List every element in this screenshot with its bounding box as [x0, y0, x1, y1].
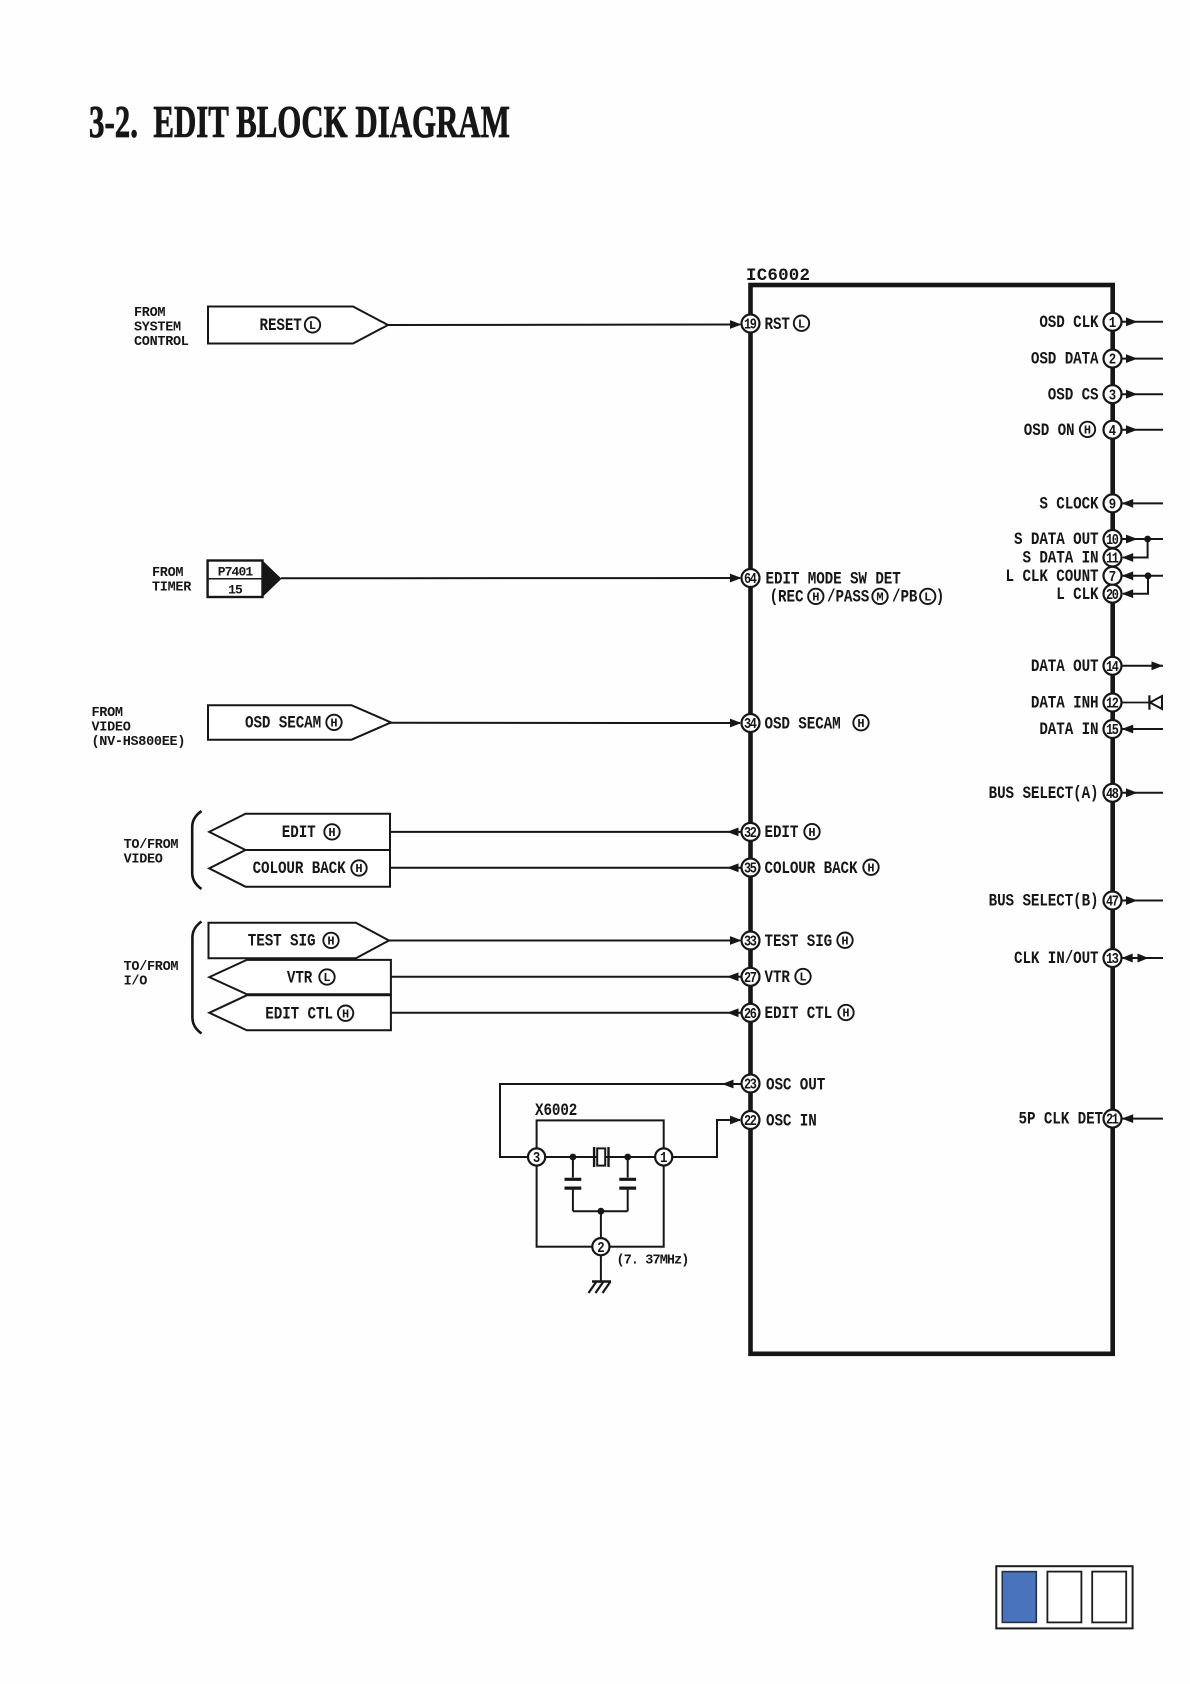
- node label FROM SYSTEM CONTROL: [134, 306, 189, 350]
- svg-text:BUS SELECT(B): BUS SELECT(B): [989, 890, 1099, 911]
- svg-text:3: 3: [533, 1151, 540, 1167]
- signal flag RESET (L): [208, 307, 388, 344]
- svg-text:VTR: VTR: [287, 967, 313, 988]
- svg-text:23: 23: [744, 1077, 757, 1093]
- svg-text:/PB: /PB: [892, 586, 918, 607]
- svg-text:DATA IN: DATA IN: [1039, 719, 1098, 740]
- svg-text:1: 1: [660, 1151, 667, 1167]
- svg-text:L: L: [309, 319, 316, 333]
- svg-text:/PASS: /PASS: [827, 586, 870, 607]
- svg-text:OSD CLK: OSD CLK: [1039, 311, 1098, 332]
- svg-text:(7. 37MHz): (7. 37MHz): [617, 1254, 689, 1269]
- svg-text:OSD CS: OSD CS: [1048, 384, 1099, 405]
- svg-text:20: 20: [1106, 587, 1119, 603]
- svg-text:FROM: FROM: [134, 306, 165, 321]
- pin 21 5P CLK DET: [1019, 1108, 1122, 1129]
- signal flag EDIT CTL (H): [209, 995, 391, 1030]
- svg-text:21: 21: [1106, 1112, 1119, 1128]
- pin 1 OSD CLK: [1039, 311, 1121, 332]
- svg-text:L: L: [924, 591, 931, 605]
- pin 13 CLK IN/OUT: [1014, 948, 1121, 969]
- page nav marker boxes: [996, 1566, 1132, 1628]
- wire OSC IN from crystal pin 1: [673, 1116, 742, 1157]
- node label TO/FROM I/O: [124, 960, 179, 990]
- wire pin 26 to EDIT CTL flag: [391, 1008, 742, 1017]
- svg-text:EDIT CTL: EDIT CTL: [265, 1003, 333, 1024]
- svg-text:OSD ON: OSD ON: [1024, 419, 1075, 440]
- wire pin 2 to ground: [600, 1255, 602, 1281]
- svg-text:TEST SIG: TEST SIG: [248, 930, 316, 951]
- svg-text:DATA OUT: DATA OUT: [1031, 655, 1099, 676]
- svg-text:3: 3: [1109, 388, 1116, 404]
- svg-text:4: 4: [1109, 424, 1116, 440]
- junction dot right: [624, 1154, 631, 1161]
- svg-text:L: L: [323, 971, 330, 985]
- junction dot common: [598, 1208, 605, 1215]
- svg-text:26: 26: [744, 1006, 757, 1022]
- crystal X6002 designator: [535, 1099, 577, 1120]
- wire CLK IN/OUT bidirectional: [1122, 954, 1164, 963]
- svg-text:BUS SELECT(A): BUS SELECT(A): [989, 782, 1099, 803]
- svg-text:H: H: [355, 862, 362, 876]
- svg-text:5P CLK DET: 5P CLK DET: [1019, 1108, 1104, 1129]
- wire S DATA OUT with branch to S DATA IN: [1122, 535, 1164, 562]
- pin 2 OSD DATA: [1031, 348, 1122, 369]
- brace io group: [192, 922, 201, 1034]
- svg-text:I/O: I/O: [124, 974, 148, 989]
- svg-text:): ): [936, 586, 944, 607]
- wire common to crystal pin 2: [600, 1211, 602, 1238]
- pin 32 EDIT (H): [742, 822, 820, 843]
- svg-text:48: 48: [1106, 786, 1119, 802]
- pin 14 DATA OUT: [1031, 655, 1122, 676]
- svg-text:H: H: [842, 1007, 849, 1021]
- svg-text:EDIT: EDIT: [282, 822, 316, 843]
- svg-text:IC6002: IC6002: [746, 266, 810, 286]
- svg-text:27: 27: [744, 970, 757, 986]
- svg-text:64: 64: [744, 571, 757, 587]
- svg-text:VIDEO: VIDEO: [92, 720, 131, 735]
- svg-text:FROM: FROM: [152, 566, 183, 581]
- crystal element X6002: [594, 1147, 608, 1167]
- wire TEST SIG to pin 33: [387, 936, 742, 945]
- svg-text:H: H: [808, 826, 815, 840]
- wire OSD CS: [1122, 390, 1164, 399]
- pin 33 TEST SIG (H): [742, 930, 853, 951]
- svg-text:12: 12: [1106, 696, 1119, 712]
- svg-text:H: H: [867, 861, 874, 875]
- capacitor C-left: [565, 1157, 582, 1211]
- wire pin 32 to EDIT flag: [390, 828, 742, 837]
- svg-text:L: L: [799, 971, 806, 985]
- svg-text:2: 2: [1109, 353, 1116, 369]
- svg-text:P7401: P7401: [218, 564, 254, 579]
- wire BUS SELECT (A): [1122, 788, 1164, 797]
- svg-text:SYSTEM: SYSTEM: [134, 321, 181, 336]
- wire OSD DATA: [1122, 354, 1164, 363]
- svg-text:32: 32: [744, 825, 757, 841]
- svg-text:15: 15: [228, 582, 243, 597]
- node label FROM TIMER: [152, 566, 192, 596]
- svg-text:OSD SECAM: OSD SECAM: [765, 713, 841, 734]
- wire OSD SECAM to pin 34: [389, 719, 742, 728]
- brace video group: [192, 811, 201, 889]
- svg-text:3-2. EDIT BLOCK DIAGRAM: 3-2. EDIT BLOCK DIAGRAM: [89, 97, 510, 147]
- svg-text:VTR: VTR: [765, 967, 791, 988]
- svg-text:CLK IN/OUT: CLK IN/OUT: [1014, 948, 1099, 969]
- svg-text:H: H: [841, 934, 848, 948]
- signal flag OSD SECAM (H): [208, 705, 391, 740]
- IC6002 reference designator: [746, 266, 810, 286]
- svg-text:VIDEO: VIDEO: [124, 852, 163, 867]
- svg-text:COLOUR BACK: COLOUR BACK: [253, 858, 346, 879]
- wire DATA OUT: [1122, 661, 1164, 670]
- connector P7401 pin 15: [208, 561, 282, 598]
- pin 48 BUS SELECT (A): [989, 782, 1122, 803]
- svg-text:13: 13: [1106, 951, 1119, 967]
- pin 11 S DATA IN: [1022, 547, 1121, 568]
- signal flag VTR (L): [209, 960, 391, 994]
- wire OSD CLK: [1122, 317, 1164, 326]
- page title: [89, 97, 510, 147]
- wire crystal internal node: [545, 1156, 655, 1158]
- svg-text:RST: RST: [765, 313, 791, 334]
- svg-text:14: 14: [1106, 659, 1119, 675]
- svg-text:DATA INH: DATA INH: [1031, 692, 1099, 713]
- wire pin 35 to COLOUR BACK flag: [390, 863, 742, 872]
- wire capacitors common: [573, 1210, 628, 1212]
- svg-text:19: 19: [744, 317, 757, 333]
- wire pin 27 to VTR flag: [391, 972, 742, 981]
- wire P7401 to pin 64: [281, 574, 742, 583]
- pin 15 DATA IN: [1039, 719, 1121, 740]
- svg-text:15: 15: [1106, 722, 1119, 738]
- svg-text:33: 33: [744, 934, 757, 950]
- wire DATA INH with diode: [1122, 695, 1164, 709]
- svg-text:34: 34: [744, 716, 757, 732]
- capacitor C-right: [619, 1157, 636, 1211]
- svg-text:OSD DATA: OSD DATA: [1031, 348, 1099, 369]
- svg-text:H: H: [330, 717, 337, 731]
- svg-text:10: 10: [1106, 532, 1119, 548]
- pin 12 DATA INH: [1031, 692, 1122, 713]
- svg-text:COLOUR BACK: COLOUR BACK: [765, 857, 858, 878]
- pin 9 S CLOCK: [1039, 493, 1121, 514]
- wire S CLOCK: [1122, 499, 1164, 508]
- svg-text:35: 35: [744, 861, 757, 877]
- svg-text:EDIT CTL: EDIT CTL: [765, 1003, 833, 1024]
- IC U1 IC6002 outline: [751, 285, 1113, 1354]
- svg-text:H: H: [328, 826, 335, 840]
- pin 19 RST (L): [742, 313, 810, 334]
- pin 64 EDIT MODE SW DET: [742, 568, 945, 607]
- svg-text:1: 1: [1109, 316, 1116, 332]
- svg-text:EDIT: EDIT: [765, 822, 799, 843]
- svg-text:11: 11: [1106, 551, 1119, 567]
- svg-text:H: H: [342, 1007, 349, 1021]
- crystal X6002 outline box: [537, 1120, 664, 1246]
- junction dot left: [570, 1154, 577, 1161]
- ground: [589, 1282, 612, 1294]
- pin 10 S DATA OUT: [1014, 529, 1121, 550]
- svg-text:(REC: (REC: [770, 586, 804, 607]
- pin 3 OSD CS: [1048, 384, 1122, 405]
- wire DATA IN: [1122, 725, 1164, 734]
- svg-text:X6002: X6002: [535, 1099, 577, 1120]
- signal flag TEST SIG (H): [209, 923, 390, 958]
- wire 5P CLK DET: [1122, 1114, 1164, 1123]
- crystal pin 3: [528, 1148, 545, 1167]
- svg-text:H: H: [812, 591, 819, 605]
- node label FROM VIDEO (NV-HS800EE): [92, 706, 186, 750]
- svg-text:M: M: [876, 591, 883, 605]
- wire OSC OUT loop: [500, 1080, 742, 1157]
- svg-text:(NV-HS800EE): (NV-HS800EE): [92, 735, 186, 750]
- pin 23 OSC OUT: [742, 1074, 826, 1095]
- svg-text:TO/FROM: TO/FROM: [124, 838, 179, 853]
- wire BUS SELECT (B): [1122, 896, 1164, 905]
- wire RESET to pin 19: [388, 320, 742, 329]
- svg-text:H: H: [1084, 424, 1091, 438]
- svg-text:TIMER: TIMER: [152, 581, 192, 596]
- svg-text:OSD SECAM: OSD SECAM: [245, 712, 321, 733]
- pin 34 OSD SECAM (H): [742, 713, 869, 734]
- crystal pin 2: [592, 1238, 609, 1257]
- node label TO/FROM VIDEO: [124, 838, 179, 868]
- pin 20 L CLK: [1056, 583, 1121, 604]
- svg-text:47: 47: [1106, 894, 1119, 910]
- signal flag COLOUR BACK (H): [209, 850, 390, 887]
- svg-text:OSC IN: OSC IN: [766, 1110, 817, 1131]
- pin 26 EDIT CTL (H): [742, 1003, 854, 1024]
- svg-text:L CLK: L CLK: [1056, 583, 1099, 604]
- svg-text:9: 9: [1109, 498, 1116, 514]
- svg-text:CONTROL: CONTROL: [134, 335, 189, 350]
- pin 27 VTR (L): [742, 967, 811, 988]
- svg-text:TEST SIG: TEST SIG: [765, 930, 833, 951]
- svg-text:RESET: RESET: [260, 314, 303, 335]
- pin 4 OSD ON (H): [1024, 419, 1122, 440]
- wire L CLK COUNT with branch to L CLK: [1122, 571, 1164, 598]
- svg-text:2: 2: [597, 1241, 604, 1257]
- pin 47 BUS SELECT (B): [989, 890, 1122, 911]
- pin 35 COLOUR BACK (H): [742, 857, 879, 878]
- svg-text:22: 22: [744, 1113, 757, 1129]
- pin 7 L CLK COUNT: [1006, 565, 1122, 586]
- svg-text:H: H: [857, 717, 864, 731]
- wire OSD ON: [1122, 425, 1164, 434]
- svg-text:H: H: [327, 935, 334, 949]
- crystal pin 1: [655, 1148, 672, 1167]
- svg-text:L: L: [798, 317, 805, 331]
- pin 22 OSC IN: [742, 1110, 817, 1131]
- value label (7.37MHz): [617, 1254, 689, 1269]
- signal flag EDIT (H): [209, 814, 390, 850]
- svg-text:OSC OUT: OSC OUT: [766, 1074, 825, 1095]
- svg-text:FROM: FROM: [92, 706, 123, 721]
- svg-text:TO/FROM: TO/FROM: [124, 960, 179, 975]
- svg-text:S CLOCK: S CLOCK: [1039, 493, 1098, 514]
